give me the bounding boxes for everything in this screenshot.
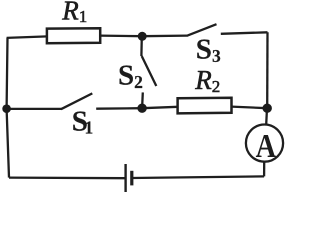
node middle junction	[137, 104, 146, 113]
wire bottom left (battery to corner)	[9, 176, 125, 179]
resistor R2	[178, 98, 232, 114]
switch S2 upper lead	[140, 36, 143, 56]
wire R2 to right node	[232, 107, 268, 109]
wire ammeter to bottom rail	[263, 162, 265, 177]
wire S1 to middle node	[96, 107, 142, 110]
wire right vertical upper	[266, 32, 269, 108]
resistor R1	[47, 28, 100, 43]
switch S1 lever	[61, 93, 92, 109]
wire top-left (to R1)	[7, 36, 48, 38]
wire R1 to top node	[100, 34, 142, 37]
wire S3 to top-right corner	[221, 32, 268, 34]
node right junction	[263, 104, 272, 113]
battery B1 long plate	[124, 164, 126, 192]
svg-text:A: A	[256, 128, 277, 165]
wire left vertical	[7, 38, 9, 178]
wire bottom right (ammeter to battery)	[132, 176, 264, 178]
wire right node to ammeter	[265, 108, 268, 124]
switch S3 lever	[187, 24, 217, 36]
wire top node to S3	[142, 34, 187, 37]
node left-middle junction	[2, 104, 11, 113]
switch S2 lower lead	[141, 92, 144, 108]
wire middle node to R2	[142, 107, 178, 108]
node top junction	[138, 32, 147, 41]
wire middle-left node to S1	[7, 108, 62, 110]
ammeter U1 circle	[246, 125, 283, 162]
battery B1 short plate	[130, 171, 133, 186]
switch S2 lever	[142, 56, 157, 86]
